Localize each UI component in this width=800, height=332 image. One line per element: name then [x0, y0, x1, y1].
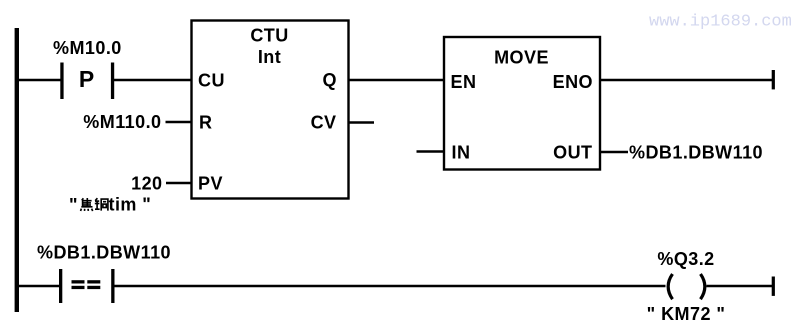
svg-text:CTU: CTU: [250, 26, 288, 46]
right terminal tick (rung 2): [772, 277, 775, 296]
wire: rail to == contact (rung 2): [17, 285, 60, 288]
svg-text:" KM72 ": " KM72 ": [647, 304, 726, 324]
svg-text:P: P: [79, 66, 94, 92]
svg-text:PV: PV: [198, 174, 223, 194]
svg-text:%DB1.DBW110: %DB1.DBW110: [629, 143, 763, 163]
wire: OUT output to operand: [600, 151, 628, 154]
svg-text:IN: IN: [452, 143, 471, 163]
wire: %M110.0 to R input: [166, 121, 192, 124]
svg-text:ENO: ENO: [553, 72, 593, 92]
svg-text:MOVE: MOVE: [494, 48, 549, 68]
svg-text:Int: Int: [258, 47, 281, 67]
wire: P contact to CTU CU input: [114, 79, 192, 82]
wire: rail to P contact (rung 1): [17, 79, 61, 82]
contact %M10.0 (positive edge P): [60, 63, 114, 100]
wire: ENO output to right terminal: [600, 79, 772, 82]
svg-text:Q: Q: [323, 70, 337, 90]
hanzi 焦: [81, 198, 93, 211]
right terminal tick (rung 1): [772, 70, 775, 89]
svg-text:": ": [69, 195, 78, 215]
svg-text:tim ": tim ": [109, 195, 152, 215]
wire stub: IN input: [417, 150, 445, 153]
svg-text:%DB1.DBW110: %DB1.DBW110: [37, 243, 171, 263]
svg-text:%M110.0: %M110.0: [83, 112, 161, 132]
MOVE block: [444, 37, 600, 170]
svg-text:CV: CV: [311, 113, 337, 133]
wire: coil to right terminal: [707, 285, 773, 288]
wire: 120 to PV input: [166, 182, 192, 185]
svg-text:CU: CU: [198, 71, 225, 91]
svg-text:120: 120: [131, 174, 162, 194]
left power rail: [15, 28, 19, 312]
comparator contact ==: [59, 269, 115, 303]
hanzi 铜: [95, 198, 108, 210]
svg-text:EN: EN: [451, 72, 477, 92]
svg-text:R: R: [199, 113, 212, 133]
wire stub: CV output: [349, 121, 375, 124]
svg-text:%Q3.2: %Q3.2: [657, 249, 714, 269]
svg-text:%M10.0: %M10.0: [53, 38, 122, 58]
comment label " 焦铜tim ": [69, 195, 151, 216]
svg-text:www.ip1689.com: www.ip1689.com: [649, 13, 792, 32]
coil ( ): [668, 274, 705, 299]
svg-text:OUT: OUT: [553, 143, 592, 163]
counter CTU block: [192, 21, 349, 199]
wire: CTU Q output to MOVE EN input: [349, 79, 445, 82]
wire: == contact to coil: [115, 285, 666, 288]
